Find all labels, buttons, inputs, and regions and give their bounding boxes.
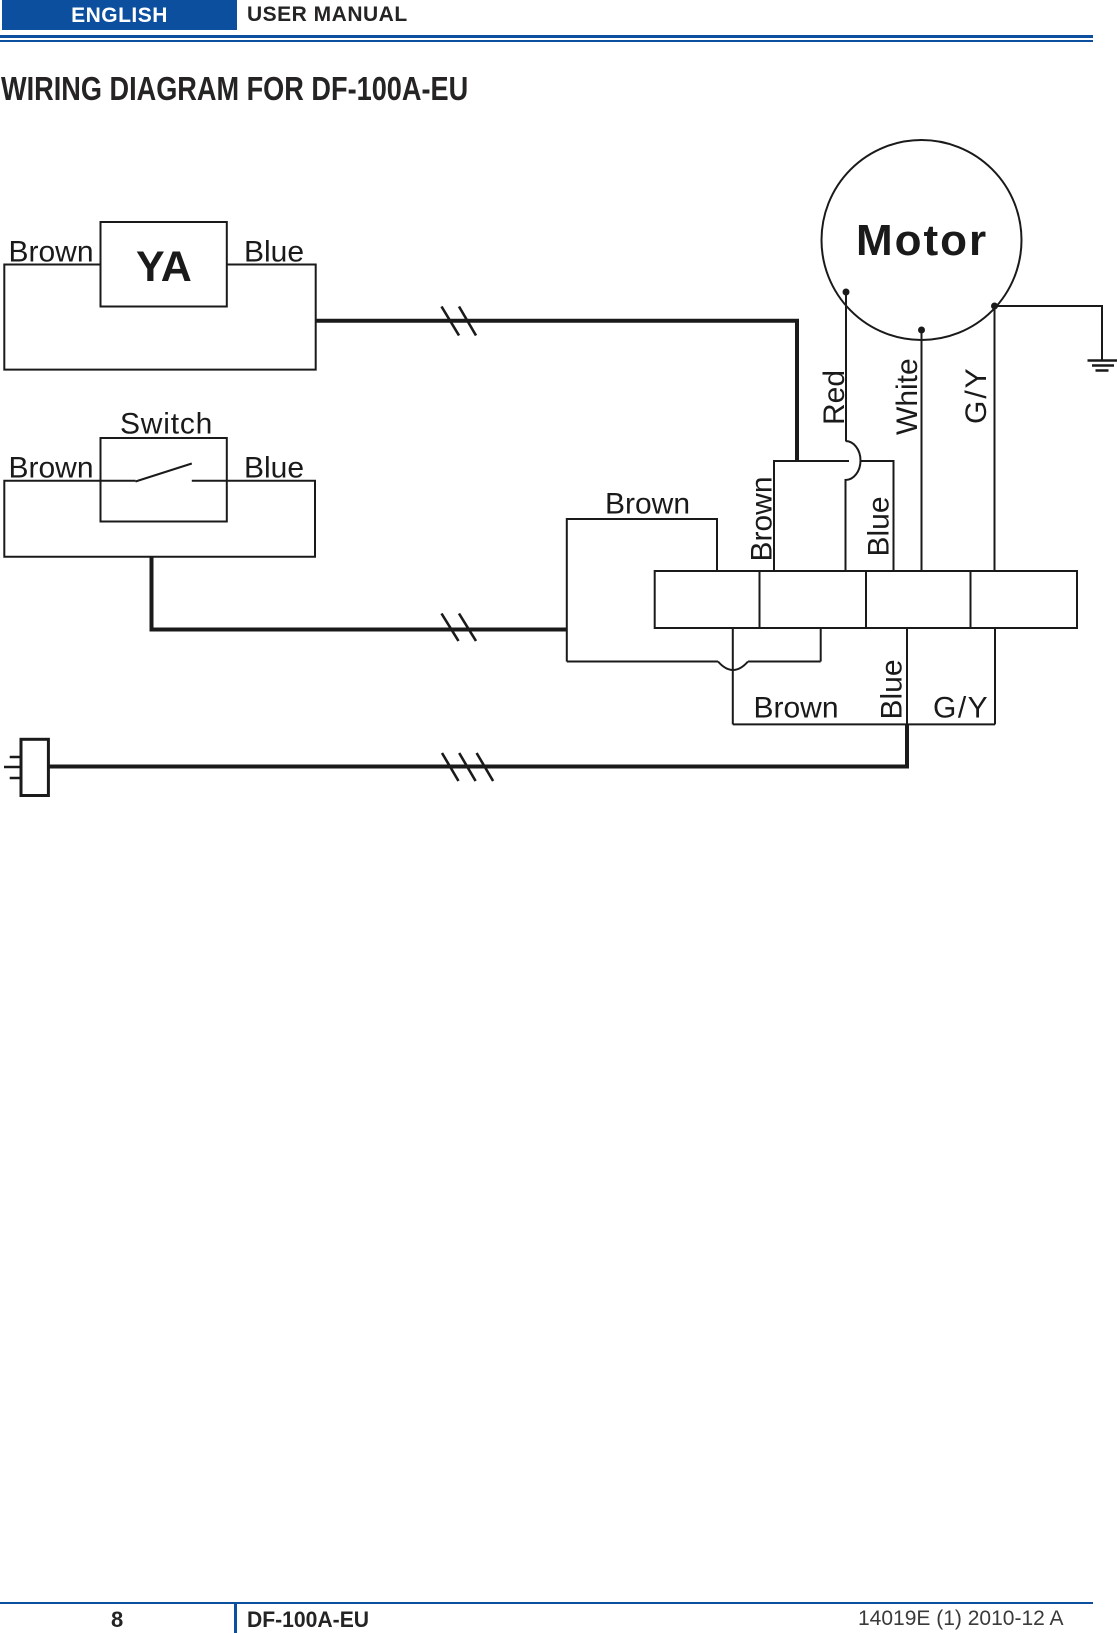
switch body box: [101, 438, 227, 522]
footer divider: [234, 1602, 237, 1633]
terminal dot white: [918, 327, 925, 334]
svg-text:Brown: Brown: [9, 236, 94, 269]
svg-text:Blue: Blue: [244, 236, 304, 269]
svg-text:Blue: Blue: [244, 452, 304, 485]
terminal block divider 2: [865, 571, 867, 628]
connector housing upper: [774, 461, 894, 571]
wire red motor lead: [845, 292, 847, 441]
wire G/Y below block: [994, 628, 996, 724]
terminal dot red: [843, 289, 850, 296]
wire cell1 to brown label box: [732, 628, 734, 724]
wire G/Y motor lead: [994, 306, 996, 571]
wire red hop over connector edge: [846, 441, 861, 571]
header language tab: [2, 0, 237, 30]
wire blue divider below block: [906, 628, 908, 724]
svg-text:Brown: Brown: [605, 488, 690, 521]
wire YA blue to connector (thick): [316, 321, 797, 461]
wire hop under cell1 lead: [718, 662, 748, 671]
header rule top: [0, 35, 1093, 38]
wire break slashes lower (triple): [442, 753, 493, 781]
wire break slashes upper: [442, 307, 477, 336]
svg-text:Brown: Brown: [9, 452, 94, 485]
svg-text:Brown: Brown: [746, 476, 779, 561]
wire white motor lead: [921, 330, 923, 571]
YA outer loop box: [4, 265, 315, 370]
ground: [1088, 361, 1117, 371]
svg-text:G/Y: G/Y: [933, 692, 989, 725]
svg-text:Brown: Brown: [754, 692, 839, 725]
motor circle: [822, 140, 1022, 340]
terminal dot G/Y: [991, 303, 998, 310]
svg-text:Red: Red: [818, 370, 851, 425]
wire switch circuit to cell2: [567, 628, 821, 662]
plug body: [21, 739, 48, 795]
svg-text:G/Y: G/Y: [960, 366, 993, 424]
svg-text:Blue: Blue: [876, 659, 909, 719]
page title: [1, 70, 468, 108]
brown flag box: [567, 519, 717, 662]
terminal block divider 1: [759, 571, 761, 628]
label box bottom: [733, 723, 995, 725]
terminal block divider 3: [970, 571, 972, 628]
footer page number: [111, 1607, 123, 1633]
footer model: [247, 1607, 369, 1633]
wire switch to junction (thick): [152, 557, 567, 630]
wire supply (thick): [48, 724, 907, 766]
terminal block: [655, 571, 1077, 628]
svg-text:Switch: Switch: [120, 408, 213, 441]
wire motor to ground: [995, 306, 1103, 360]
svg-text:Motor: Motor: [856, 216, 988, 265]
header rule bottom: [0, 40, 1093, 42]
footer rule: [0, 1602, 1093, 1604]
plug prongs: [4, 757, 21, 778]
YA coil box: [101, 222, 227, 307]
svg-text:Blue: Blue: [863, 496, 896, 556]
footer doc code: [858, 1607, 1064, 1631]
svg-text:White: White: [891, 358, 924, 435]
header document title: [247, 3, 408, 27]
svg-text:YA: YA: [136, 243, 192, 291]
switch blade: [136, 464, 192, 482]
switch contact wires (outer loop box): [4, 481, 315, 557]
wire break slashes middle: [442, 614, 477, 642]
